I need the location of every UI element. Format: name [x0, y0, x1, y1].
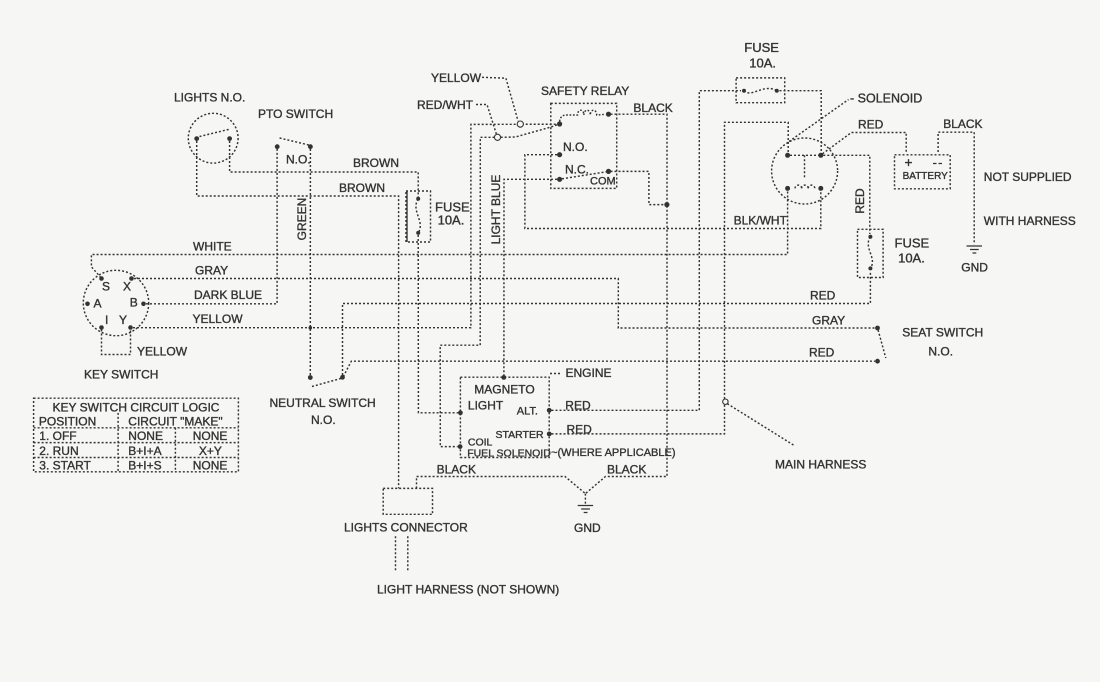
svg-text:LIGHT: LIGHT: [468, 399, 504, 413]
svg-text:MAGNETO: MAGNETO: [474, 383, 534, 397]
lights switch SW1 right terminal: [227, 136, 232, 141]
solenoid contact bar and plunger: [790, 155, 819, 179]
svg-text:BATTERY: BATTERY: [903, 171, 949, 182]
svg-text:- SOLENOID: - SOLENOID: [850, 92, 922, 106]
svg-text:GND: GND: [961, 260, 988, 274]
battery minus sign: [933, 163, 942, 165]
solenoid top-left terminal: [785, 153, 790, 158]
relay coil winding: [560, 110, 605, 121]
seat switch blade: [878, 330, 886, 358]
svg-text:I: I: [105, 313, 108, 327]
ground GND1 stem: [584, 494, 586, 505]
wire BLACK: relay coil to ground V right branch: [585, 114, 667, 493]
svg-text:DARK BLUE: DARK BLUE: [194, 288, 262, 302]
svg-text:RED: RED: [858, 118, 884, 132]
PTO switch right terminal: [308, 144, 313, 149]
relay blade N.C.-COM: [562, 172, 607, 179]
key switch terminal S: [99, 276, 104, 281]
wire GRAY: key X to seat switch top: [134, 279, 875, 329]
wire BLACK: lights connector to ground V left branch: [417, 477, 586, 494]
label ENGINE with pointer dash: [550, 373, 562, 375]
PTO switch blade: [280, 138, 309, 145]
connector C1 circle (YELLOW): [517, 121, 523, 127]
wire RED: solenoid stud to fuse F2 top: [823, 155, 870, 234]
fuse F2 bottom terminal: [868, 266, 872, 270]
table column line 1: [117, 413, 119, 472]
svg-text:~(WHERE APPLICABLE): ~(WHERE APPLICABLE): [551, 447, 675, 459]
svg-text:PTO SWITCH: PTO SWITCH: [258, 107, 333, 121]
svg-text:YELLOW: YELLOW: [431, 71, 482, 85]
svg-text:NEUTRAL SWITCH: NEUTRAL SWITCH: [270, 396, 376, 410]
solenoid top-right terminal: [818, 153, 823, 158]
key switch circle: [83, 270, 148, 335]
table row line 2: [34, 442, 239, 444]
wire YELLOW jumper I-Y: [102, 330, 131, 355]
svg-text:RED: RED: [853, 188, 867, 214]
fuse F1 left solid edge: [406, 191, 408, 242]
main harness pointer diagonal: [727, 404, 795, 446]
svg-text:CIRCUIT "MAKE": CIRCUIT "MAKE": [128, 415, 222, 429]
solenoid bottom-right terminal: [818, 186, 823, 191]
svg-text:Y: Y: [119, 313, 127, 327]
svg-text:GREEN: GREEN: [295, 198, 309, 241]
svg-text:WHITE: WHITE: [193, 240, 232, 254]
wire WHITE: key S to solenoid coil left: [91, 191, 787, 278]
junction dot COM/BLACK: [664, 202, 669, 207]
wire BLACK: battery minus to ground GND2: [938, 132, 974, 244]
svg-text:N.C.: N.C.: [565, 163, 589, 177]
svg-text:MAIN HARNESS: MAIN HARNESS: [775, 458, 866, 472]
fuse F2 element curve: [868, 237, 872, 268]
svg-text:KEY SWITCH: KEY SWITCH: [84, 368, 158, 382]
svg-text:YELLOW: YELLOW: [193, 312, 244, 326]
lights switch SW1 circle: [188, 113, 238, 163]
connector C2 circle (RED/WHT): [494, 134, 500, 140]
svg-text:ALT.: ALT.: [517, 405, 538, 417]
solenoid circle: [772, 138, 838, 204]
fuse F1 bottom terminal: [416, 231, 420, 235]
svg-text:NONE: NONE: [128, 429, 163, 443]
svg-text:BLACK: BLACK: [943, 117, 982, 131]
svg-text:LIGHT BLUE: LIGHT BLUE: [489, 175, 503, 245]
wire RED: solenoid top-right to battery plus: [823, 133, 907, 154]
wire GREEN: PTO right terminal down to neutral switch left: [309, 149, 311, 375]
light harness stub left: [395, 536, 397, 571]
key switch terminal Y: [128, 325, 133, 330]
wire RED/WHT: connector C2 to relay coil left terminal: [501, 124, 559, 137]
wire RED bus: neutral right terminal to fuse F2 bottom: [343, 271, 871, 375]
battery box: [895, 155, 951, 189]
key switch logic table outer box: [34, 398, 239, 472]
ground GND1 symbol: [578, 506, 593, 513]
svg-text:X: X: [123, 280, 131, 294]
svg-text:1. OFF: 1. OFF: [39, 429, 76, 443]
svg-text:N.O.: N.O.: [563, 140, 588, 154]
svg-text:B+I+S: B+I+S: [128, 459, 161, 473]
solenoid coil arcs: [795, 185, 815, 188]
svg-text:2. RUN: 2. RUN: [39, 444, 78, 458]
svg-text:A: A: [94, 297, 102, 311]
svg-text:POSITION: POSITION: [39, 415, 96, 429]
svg-text:LIGHT HARNESS (NOT SHOWN): LIGHT HARNESS (NOT SHOWN): [377, 583, 559, 597]
svg-text:N.O.: N.O.: [311, 413, 336, 427]
svg-text:LIGHTS N.O.: LIGHTS N.O.: [174, 91, 245, 105]
key switch terminal X: [129, 276, 134, 281]
engine STARTER terminal: [547, 432, 552, 437]
svg-text:B: B: [130, 296, 138, 310]
key switch terminal I: [99, 325, 104, 330]
svg-text:COM: COM: [590, 176, 616, 188]
seat switch bottom terminal: [875, 359, 880, 364]
lights switch SW1 blade: [200, 129, 230, 136]
svg-text:3. START: 3. START: [39, 459, 91, 473]
fuse F2 box (right): [858, 229, 884, 277]
svg-text:FUEL SOLENOID: FUEL SOLENOID: [467, 447, 551, 459]
engine box: [460, 377, 549, 457]
wire STARTER cable: engine STARTER to solenoid top-left: [552, 122, 789, 434]
svg-text:BROWN: BROWN: [353, 156, 399, 170]
svg-text:KEY SWITCH CIRCUIT LOGIC: KEY SWITCH CIRCUIT LOGIC: [53, 400, 220, 414]
safety relay box: [551, 103, 617, 188]
fuse F2 top terminal: [868, 235, 872, 239]
fuse F1 element curve: [416, 199, 420, 233]
table row line 3: [34, 457, 239, 459]
neutral switch blade: [312, 378, 343, 387]
svg-text:10A.: 10A.: [749, 55, 776, 70]
wire BROWN1: lights right terminal to fuse F1 top: [230, 141, 419, 199]
svg-text:BLK/WHT: BLK/WHT: [734, 214, 788, 228]
svg-text:RED: RED: [810, 289, 836, 303]
svg-text:BLACK: BLACK: [437, 463, 476, 477]
svg-text:BLACK: BLACK: [607, 463, 646, 477]
engine ALT terminal: [547, 408, 552, 413]
svg-text:N.O.: N.O.: [286, 153, 311, 167]
main harness node circle: [723, 399, 728, 404]
svg-text:ENGINE: ENGINE: [566, 366, 612, 380]
RED/WHT label pointer: [476, 105, 496, 134]
engine COIL/FUEL SOLENOID terminal: [458, 444, 463, 449]
wire ALT RED: engine ALT to fuse F3 left: [552, 91, 742, 411]
svg-text:SEAT SWITCH: SEAT SWITCH: [902, 326, 983, 340]
wire DARK BLUE: key B to PTO left terminal: [146, 149, 277, 304]
svg-text:X+Y: X+Y: [199, 444, 222, 458]
lights switch SW1 left terminal: [194, 136, 199, 141]
PTO switch left terminal: [275, 144, 280, 149]
junction GREEN/YELLOW bus: [309, 326, 313, 330]
key switch terminal B: [141, 302, 146, 307]
wire BROWN2: lights left terminal to lights connector: [197, 141, 399, 488]
wire fused lights feed: F1 bottom to engine LIGHT terminal: [418, 235, 458, 413]
lights connector box: [383, 488, 432, 514]
relay coil right terminal: [606, 112, 611, 117]
wire BLK/WHT: relay N.O. to solenoid coil right: [525, 155, 821, 229]
relay N.C. terminal: [557, 177, 562, 182]
svg-text:BLACK: BLACK: [633, 101, 672, 115]
engine MAGNETO terminal: [501, 375, 506, 380]
fuse F3 box (top): [736, 78, 785, 103]
fuse F3 left terminal: [742, 89, 746, 93]
solenoid label pointer: [789, 100, 849, 142]
wire fused ALT feed: fuse F3 right down to RED junction and fuse F2: [780, 91, 822, 153]
wire kill line: neutral right terminal to seat switch bottom: [343, 361, 875, 376]
svg-text:WITH HARNESS: WITH HARNESS: [984, 214, 1076, 228]
svg-text:NONE: NONE: [193, 429, 228, 443]
svg-text:FUSE: FUSE: [895, 235, 930, 250]
wire YELLOW tail into connector C1: [482, 77, 518, 121]
wire LIGHT BLUE: relay N.C. to magneto terminal: [504, 179, 557, 375]
fuse F3 right terminal: [775, 89, 779, 93]
svg-text:NONE: NONE: [193, 459, 228, 473]
svg-text:GRAY: GRAY: [812, 314, 845, 328]
relay coil left terminal: [557, 121, 562, 126]
svg-text:RED: RED: [567, 423, 593, 437]
light harness stub right: [407, 536, 409, 571]
ground GND2 symbol: [967, 246, 983, 253]
svg-text:N.O.: N.O.: [928, 345, 953, 359]
wire COM elbow to black vertical: [611, 171, 665, 204]
svg-text:BROWN: BROWN: [339, 181, 385, 195]
relay N.O. terminal: [557, 152, 562, 157]
svg-text:FUSE: FUSE: [744, 40, 779, 55]
battery plus sign: [905, 159, 912, 166]
table column line 2: [174, 428, 176, 472]
svg-text:10A.: 10A.: [438, 213, 465, 228]
relay COM terminal: [606, 169, 611, 174]
fuse F1 box: [406, 191, 431, 242]
wire YELLOW bus: key Y to safety relay coil: [133, 124, 557, 328]
svg-text:STARTER: STARTER: [496, 429, 544, 441]
svg-text:RED: RED: [809, 346, 835, 360]
svg-text:LIGHTS CONNECTOR: LIGHTS CONNECTOR: [344, 521, 468, 535]
solenoid bottom-left terminal: [785, 186, 790, 191]
svg-text:B+I+A: B+I+A: [128, 444, 161, 458]
wire RED/WHT: connector C2 to engine COIL terminal: [440, 137, 494, 446]
svg-text:GRAY: GRAY: [195, 264, 228, 278]
svg-text:RED: RED: [565, 398, 591, 412]
fuse F3 element curve: [744, 88, 777, 92]
neutral switch left terminal: [308, 375, 313, 380]
engine LIGHT terminal: [458, 410, 463, 415]
svg-text:10A.: 10A.: [898, 251, 925, 266]
svg-text:NOT SUPPLIED: NOT SUPPLIED: [984, 170, 1072, 184]
table row line 1: [34, 427, 239, 429]
neutral switch right terminal: [340, 375, 345, 380]
svg-text:RED/WHT: RED/WHT: [417, 98, 474, 112]
svg-text:S: S: [102, 280, 110, 294]
fuse F1 top terminal: [416, 197, 420, 201]
key switch terminal A: [85, 302, 90, 307]
seat switch top terminal: [875, 326, 880, 331]
svg-text:YELLOW: YELLOW: [137, 345, 188, 359]
svg-text:SAFETY RELAY: SAFETY RELAY: [541, 84, 629, 98]
svg-text:GND: GND: [574, 521, 601, 535]
